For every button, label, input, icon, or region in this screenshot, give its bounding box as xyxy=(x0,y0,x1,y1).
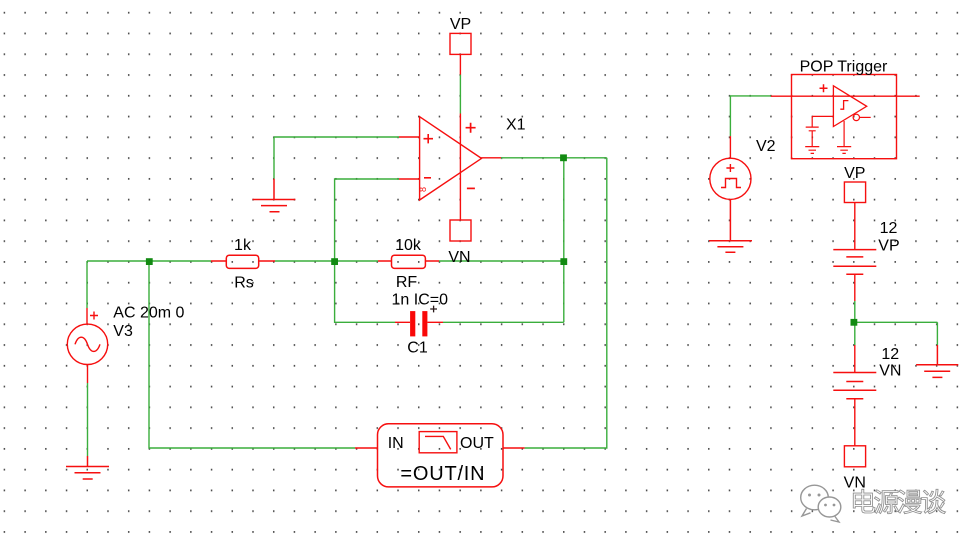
wire output node xyxy=(501,158,607,322)
capacitor C1 xyxy=(395,306,443,337)
wire V2 to POP trigger xyxy=(730,96,771,136)
resistor RF xyxy=(378,255,439,268)
wire non-inverting input xyxy=(274,136,399,138)
wire V3 riser xyxy=(86,261,88,308)
resistor Rs xyxy=(211,255,275,268)
battery V-VP 12 xyxy=(833,250,876,301)
wire ground riser at + input xyxy=(273,137,275,179)
svg-text:VN: VN xyxy=(879,362,901,379)
ground V2 xyxy=(709,199,752,252)
wire VP rail node xyxy=(854,301,938,345)
power terminal VP (op-amp) xyxy=(450,33,471,74)
svg-text:X1: X1 xyxy=(506,117,526,134)
POP Trigger block xyxy=(771,75,920,159)
node junction A xyxy=(146,258,153,265)
watermark logo xyxy=(801,485,841,522)
svg-text:12: 12 xyxy=(880,220,898,237)
node junction C xyxy=(560,258,567,265)
svg-text:V2: V2 xyxy=(756,138,776,155)
svg-text:RF: RF xyxy=(396,274,418,291)
svg-text:AC 20m 0: AC 20m 0 xyxy=(113,304,184,321)
svg-text:Rs: Rs xyxy=(234,275,254,292)
battery V-VN 12 xyxy=(833,345,876,446)
svg-text:电源漫谈: 电源漫谈 xyxy=(850,488,946,518)
wire probe IN branch xyxy=(149,261,355,448)
op-amp X1 xyxy=(399,114,501,221)
power terminal VN (rail) xyxy=(844,446,865,467)
ground V3 xyxy=(66,456,109,479)
svg-text:12: 12 xyxy=(881,346,899,363)
wire output to probe OUT xyxy=(525,158,607,448)
svg-text:VP: VP xyxy=(450,16,471,33)
power terminal VP (rail) xyxy=(844,182,865,249)
svg-text:10k: 10k xyxy=(395,237,422,254)
ground near op-amp + input xyxy=(253,179,296,212)
pulse source V2 xyxy=(710,136,751,199)
svg-text:VP: VP xyxy=(844,165,865,182)
svg-text:V3: V3 xyxy=(113,323,133,340)
wire main input row xyxy=(87,260,564,262)
svg-text:OUT: OUT xyxy=(460,435,494,452)
wire C1 branch left xyxy=(335,261,395,322)
svg-text:VP: VP xyxy=(878,237,899,254)
svg-text:POP Trigger: POP Trigger xyxy=(800,59,888,76)
wire inverting input branch xyxy=(335,179,399,261)
svg-text:C1: C1 xyxy=(407,340,428,357)
svg-text:1n IC=0: 1n IC=0 xyxy=(392,292,449,309)
power terminal VN (op-amp) xyxy=(450,220,471,241)
wire C1 branch right xyxy=(443,321,564,323)
svg-text:8: 8 xyxy=(418,187,428,192)
node junction E xyxy=(851,319,858,326)
svg-text:=OUT/IN: =OUT/IN xyxy=(400,463,485,485)
wire VP supply to op-amp xyxy=(459,75,461,114)
bode probe =OUT/IN xyxy=(355,424,525,487)
node junction D xyxy=(560,154,567,161)
svg-text:VN: VN xyxy=(448,249,470,266)
svg-text:IN: IN xyxy=(388,435,404,452)
node junction B xyxy=(331,258,338,265)
AC source V3 xyxy=(67,308,107,456)
svg-text:1k: 1k xyxy=(234,237,252,254)
ground right rail xyxy=(916,345,958,377)
